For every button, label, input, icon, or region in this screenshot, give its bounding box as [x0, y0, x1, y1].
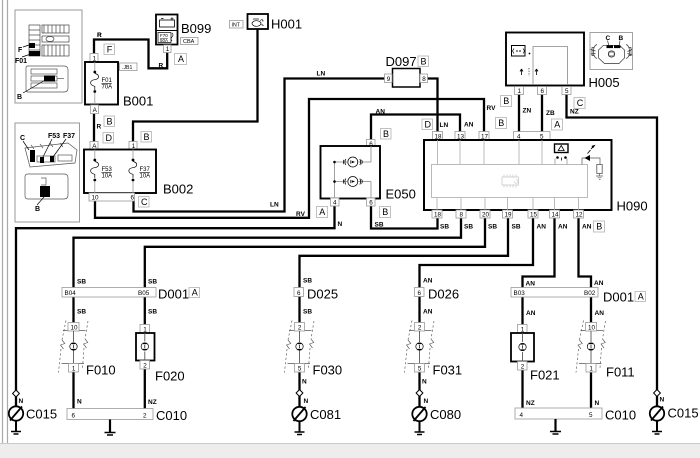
internal wiring	[335, 146, 372, 198]
wire SB F010 pin1 to C010 pin6	[72, 372, 74, 409]
wire N F031 pin5 to C080	[418, 373, 420, 391]
svg-text:F53: F53	[102, 167, 113, 173]
bottom gray strip	[0, 444, 700, 458]
svg-text:C010: C010	[156, 408, 187, 423]
svg-text:50A: 50A	[160, 38, 168, 43]
svg-text:5: 5	[418, 365, 422, 372]
svg-text:D: D	[425, 119, 432, 129]
svg-text:4: 4	[520, 412, 524, 419]
svg-text:10: 10	[71, 324, 79, 331]
svg-text:B: B	[498, 118, 504, 128]
svg-text:1: 1	[166, 46, 170, 53]
svg-text:C081: C081	[310, 407, 341, 422]
svg-text:F021: F021	[530, 368, 560, 383]
letter box A	[175, 54, 187, 65]
svg-text:F: F	[107, 44, 113, 54]
svg-text:B: B	[503, 96, 509, 106]
svg-text:B: B	[619, 35, 624, 42]
bottom pin boxes 18 8 20 19 15 14 12	[432, 210, 584, 218]
svg-text:9: 9	[387, 76, 391, 83]
hazard icon box	[512, 46, 526, 57]
wire H001 to B002 pin1	[133, 29, 258, 142]
svg-text:70A: 70A	[102, 85, 113, 91]
B002 box	[84, 150, 156, 194]
switch contact dots	[556, 156, 559, 159]
svg-text:B02: B02	[584, 290, 596, 297]
svg-text:AN: AN	[595, 310, 605, 317]
wire R B001 pinA to B002 pinA	[93, 114, 95, 142]
pin 8	[420, 74, 428, 83]
svg-text:8: 8	[422, 76, 426, 83]
letter box B	[380, 207, 391, 218]
svg-text:N: N	[660, 397, 665, 404]
svg-text:H005: H005	[589, 75, 620, 90]
svg-text:B: B	[107, 116, 113, 126]
svg-text:F01: F01	[102, 78, 113, 84]
svg-text:F01: F01	[15, 58, 27, 65]
wire SB H090 pin8 to D001 B04 (F010)	[74, 218, 462, 288]
svg-text:10A: 10A	[140, 174, 151, 180]
flasher symbol 1	[343, 157, 362, 167]
svg-text:A: A	[178, 54, 184, 64]
letter box D	[103, 133, 114, 144]
inner module rectangle	[432, 165, 588, 198]
svg-text:C015: C015	[668, 406, 699, 421]
pin 4 bottom	[331, 198, 340, 206]
svg-text:F37: F37	[63, 133, 75, 140]
svg-text:B05: B05	[138, 290, 150, 297]
svg-text:2: 2	[143, 362, 147, 369]
letter box B right of pin 12	[594, 221, 605, 232]
svg-text:D026: D026	[428, 287, 459, 302]
svg-text:F53: F53	[48, 133, 60, 140]
svg-text:R: R	[97, 124, 102, 131]
svg-text:C080: C080	[430, 407, 461, 422]
letter box F	[104, 44, 115, 55]
svg-text:AN: AN	[594, 280, 604, 287]
svg-text:N: N	[77, 399, 82, 406]
pin 1 B002	[129, 142, 137, 150]
svg-text:AN: AN	[558, 224, 568, 231]
svg-text:D097: D097	[386, 54, 417, 69]
svg-text:AN: AN	[582, 224, 592, 231]
svg-text:C: C	[20, 135, 25, 142]
fuse F01 70A	[94, 62, 96, 71]
connector code CBA	[181, 38, 199, 45]
svg-text:8: 8	[460, 212, 464, 219]
svg-text:SB: SB	[303, 309, 312, 316]
flasher symbol 2	[343, 177, 362, 187]
svg-text:R: R	[97, 32, 102, 39]
wire AN D001 B03 to F021 pin1	[521, 297, 523, 325]
letter box B right of pin 1	[141, 132, 152, 143]
svg-text:RV: RV	[296, 211, 306, 218]
wire LN B002 pin6 to D097 pin9	[134, 79, 386, 212]
svg-text:SB: SB	[148, 309, 157, 316]
wire AN D026 to F031 pin2	[418, 297, 420, 324]
wire NZ F020 pin2 to C010 pin2	[144, 369, 146, 409]
svg-text:SB: SB	[488, 224, 497, 231]
svg-text:ZB: ZB	[546, 110, 555, 117]
letter box A right of ZB	[552, 119, 563, 130]
svg-text:6: 6	[541, 88, 545, 95]
pin 1 B001	[90, 54, 98, 63]
svg-text:C: C	[141, 197, 148, 207]
svg-text:F010: F010	[86, 363, 116, 378]
svg-text:SB: SB	[375, 222, 384, 229]
letter box A	[317, 207, 328, 218]
svg-text:15: 15	[530, 212, 538, 219]
top pin boxes 18 13 17 4 5	[433, 132, 551, 141]
svg-text:B: B	[382, 207, 388, 217]
svg-text:SB: SB	[512, 224, 521, 231]
pin A B001	[91, 105, 99, 114]
svg-text:A: A	[319, 207, 325, 217]
svg-text:INT: INT	[232, 22, 241, 28]
page left rule lines	[3, 0, 8, 444]
wire RV B002 pin10 to H090 pin17 top	[95, 99, 484, 218]
svg-text:ZN: ZN	[523, 108, 532, 115]
wire N C015 right diamond to ground circle	[656, 396, 658, 407]
svg-text:R: R	[159, 63, 164, 70]
svg-text:6: 6	[369, 199, 373, 206]
pin 9	[385, 74, 393, 83]
wire AN H090 pin15 to D026 (F031)	[420, 218, 534, 288]
letter box C right of NZ	[574, 98, 585, 109]
svg-text:B002: B002	[163, 182, 193, 197]
svg-text:B: B	[421, 56, 427, 66]
internal pin stubs	[437, 140, 579, 210]
wire R B099 pin1 to B001 pin1	[94, 40, 167, 69]
svg-text:B001: B001	[123, 94, 153, 109]
svg-text:12: 12	[576, 212, 584, 219]
svg-text:SB: SB	[464, 224, 473, 231]
svg-text:F020: F020	[155, 369, 185, 384]
svg-text:1: 1	[72, 365, 76, 372]
svg-text:A: A	[192, 288, 198, 298]
svg-text:C: C	[577, 98, 584, 108]
wire AN H090 pin12 to D001 B02 (F011)	[579, 218, 592, 288]
svg-text:NZ: NZ	[570, 109, 579, 116]
svg-text:CBA: CBA	[183, 39, 195, 45]
svg-text:SB: SB	[440, 224, 449, 231]
ground stub	[554, 419, 556, 431]
svg-text:B: B	[144, 132, 150, 142]
svg-text:F37: F37	[140, 167, 151, 173]
wire NZ F021 pin2 to C010 pin4	[521, 369, 523, 409]
svg-text:20: 20	[482, 212, 490, 219]
svg-text:AN: AN	[464, 122, 474, 129]
wire SB H090 pin19 to D025 (F030)	[300, 218, 509, 288]
wire SB H090 pin20 to D001 B05 (F020)	[145, 218, 485, 288]
svg-text:6: 6	[418, 290, 422, 297]
letter box B below H005 pin1	[501, 96, 512, 107]
svg-text:B: B	[17, 94, 22, 101]
svg-text:NZ: NZ	[148, 399, 157, 406]
svg-text:14: 14	[552, 212, 560, 219]
svg-text:D025: D025	[307, 287, 338, 302]
svg-text:B03: B03	[514, 290, 526, 297]
svg-text:NZ: NZ	[526, 400, 535, 407]
wire SB E050 pin6 bottom to H090 pin18 bottom	[371, 206, 438, 229]
H090 box	[424, 140, 612, 210]
pin 6 bottom	[367, 198, 376, 206]
svg-text:10: 10	[588, 324, 596, 331]
wire ZB H005 pin6 to H090 pin5	[541, 94, 543, 132]
wire N F011 pin1 to C010 pin5	[590, 373, 592, 409]
svg-text:5: 5	[298, 365, 302, 372]
wire N C081 diamond to ground circle	[298, 396, 300, 407]
pin 6 top	[367, 140, 376, 148]
svg-text:AN: AN	[423, 278, 433, 285]
svg-text:B: B	[383, 129, 389, 139]
wire SB D025 to F030 pin2	[298, 297, 300, 324]
letter box B	[104, 116, 115, 127]
svg-text:D001: D001	[603, 290, 634, 305]
letter box D left of pin 18	[422, 119, 433, 130]
pin A B002	[90, 142, 98, 150]
svg-text:N: N	[304, 398, 309, 405]
svg-text:10A: 10A	[102, 174, 113, 180]
wire N F030 pin5 to C081	[298, 373, 300, 391]
svg-text:C015: C015	[26, 407, 57, 422]
svg-text:2: 2	[143, 412, 147, 419]
svg-text:N: N	[424, 398, 429, 405]
fuse F53 10A	[94, 150, 96, 160]
svg-text:D001: D001	[158, 287, 189, 302]
svg-text:F030: F030	[313, 363, 343, 378]
svg-text:A: A	[554, 120, 560, 130]
svg-text:10: 10	[92, 195, 100, 202]
svg-text:B: B	[35, 206, 40, 213]
svg-text:N: N	[595, 400, 600, 407]
svg-text:AN: AN	[376, 109, 386, 116]
letter box B above pin 6 top	[381, 129, 392, 140]
H001 box	[248, 14, 269, 29]
svg-text:1: 1	[589, 365, 593, 372]
svg-text:18: 18	[434, 212, 442, 219]
microprocessor icon	[502, 175, 519, 188]
svg-text:2: 2	[418, 324, 422, 331]
wire N E050 pin4 to C015 left	[16, 206, 335, 391]
pin 1 B099	[164, 45, 172, 53]
svg-text:2: 2	[521, 363, 525, 370]
letter box C	[139, 197, 150, 208]
wire NZ H005 pin5 to C015 right	[567, 94, 658, 390]
ground stub	[109, 420, 111, 433]
warning triangle icon	[555, 144, 569, 153]
wire SB D001 B05 to F020 pin1	[144, 297, 146, 325]
svg-text:SB: SB	[303, 278, 312, 285]
svg-text:LN: LN	[440, 122, 449, 129]
svg-text:N: N	[422, 379, 427, 386]
svg-text:AN: AN	[526, 310, 536, 317]
svg-text:RV: RV	[487, 105, 497, 112]
junction tag JB1	[120, 63, 138, 71]
pin strip 10 / 6	[89, 193, 135, 201]
svg-text:.JB1: .JB1	[122, 65, 132, 71]
svg-text:LN: LN	[270, 202, 279, 209]
wire ZN H005 pin1 to H090 pin4	[518, 94, 520, 132]
svg-text:AN: AN	[423, 309, 433, 316]
letter box B right of pin 17	[496, 118, 507, 129]
svg-text:D: D	[106, 133, 113, 143]
svg-text:SB: SB	[77, 279, 86, 286]
svg-text:F011: F011	[606, 365, 635, 380]
svg-text:AN: AN	[537, 224, 547, 231]
svg-text:N: N	[302, 379, 307, 386]
B001 box	[85, 62, 118, 105]
svg-text:N: N	[19, 398, 24, 405]
svg-text:B099: B099	[181, 21, 211, 36]
switch arrows	[520, 69, 523, 75]
pins 1 6 5	[515, 87, 524, 95]
svg-text:2: 2	[298, 324, 302, 331]
svg-text:H001: H001	[271, 17, 302, 32]
svg-text:6: 6	[297, 290, 301, 297]
svg-text:H090: H090	[617, 199, 648, 214]
wire SB D001 B04 to F010 pin10	[72, 297, 74, 324]
svg-text:F: F	[18, 47, 23, 54]
fuse F70 50A inside B099	[158, 33, 171, 43]
svg-text:SB: SB	[77, 309, 86, 316]
svg-text:4: 4	[333, 199, 337, 206]
fuse F37 10A	[132, 150, 134, 160]
svg-text:5: 5	[589, 412, 593, 419]
wire LN D097 pin8 to H090 pin18 top	[427, 79, 438, 132]
svg-text:N: N	[338, 221, 343, 228]
wire N C015 left diamond to ground circle	[15, 397, 17, 407]
inner contact rectangle	[533, 47, 568, 86]
svg-text:AN: AN	[526, 281, 536, 288]
svg-text:C010: C010	[605, 408, 636, 423]
wire AN D001 B02 to F011 pin10	[590, 297, 592, 324]
E050 box	[321, 146, 381, 199]
svg-text:C: C	[606, 35, 611, 42]
svg-text:E050: E050	[386, 187, 416, 202]
wire AN H090 pin14 to D001 B03 (F021)	[523, 218, 555, 288]
svg-text:SB: SB	[148, 279, 157, 286]
svg-text:5: 5	[565, 88, 569, 95]
svg-text:6: 6	[131, 195, 135, 202]
indicator LED and resistor	[582, 158, 600, 165]
svg-text:B04: B04	[65, 290, 77, 297]
svg-text:6: 6	[72, 412, 76, 419]
wire N C080 diamond to ground circle	[418, 396, 420, 407]
svg-text:B: B	[596, 222, 602, 232]
svg-text:1: 1	[518, 88, 522, 95]
svg-text:LN: LN	[317, 71, 326, 78]
svg-text:19: 19	[505, 212, 513, 219]
svg-text:A: A	[638, 292, 644, 302]
svg-text:F031: F031	[433, 363, 463, 378]
INT tag	[230, 21, 244, 29]
wire AN E050 pin6 top to H090 pin13 top	[371, 115, 460, 140]
